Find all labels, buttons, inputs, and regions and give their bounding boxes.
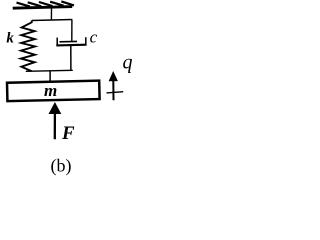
svg-text:F: F	[61, 123, 75, 144]
svg-text:(b): (b)	[51, 156, 72, 177]
svg-text:m: m	[44, 81, 57, 100]
svg-text:k: k	[6, 31, 14, 47]
svg-text:c: c	[90, 27, 98, 46]
svg-text:q: q	[123, 52, 133, 74]
